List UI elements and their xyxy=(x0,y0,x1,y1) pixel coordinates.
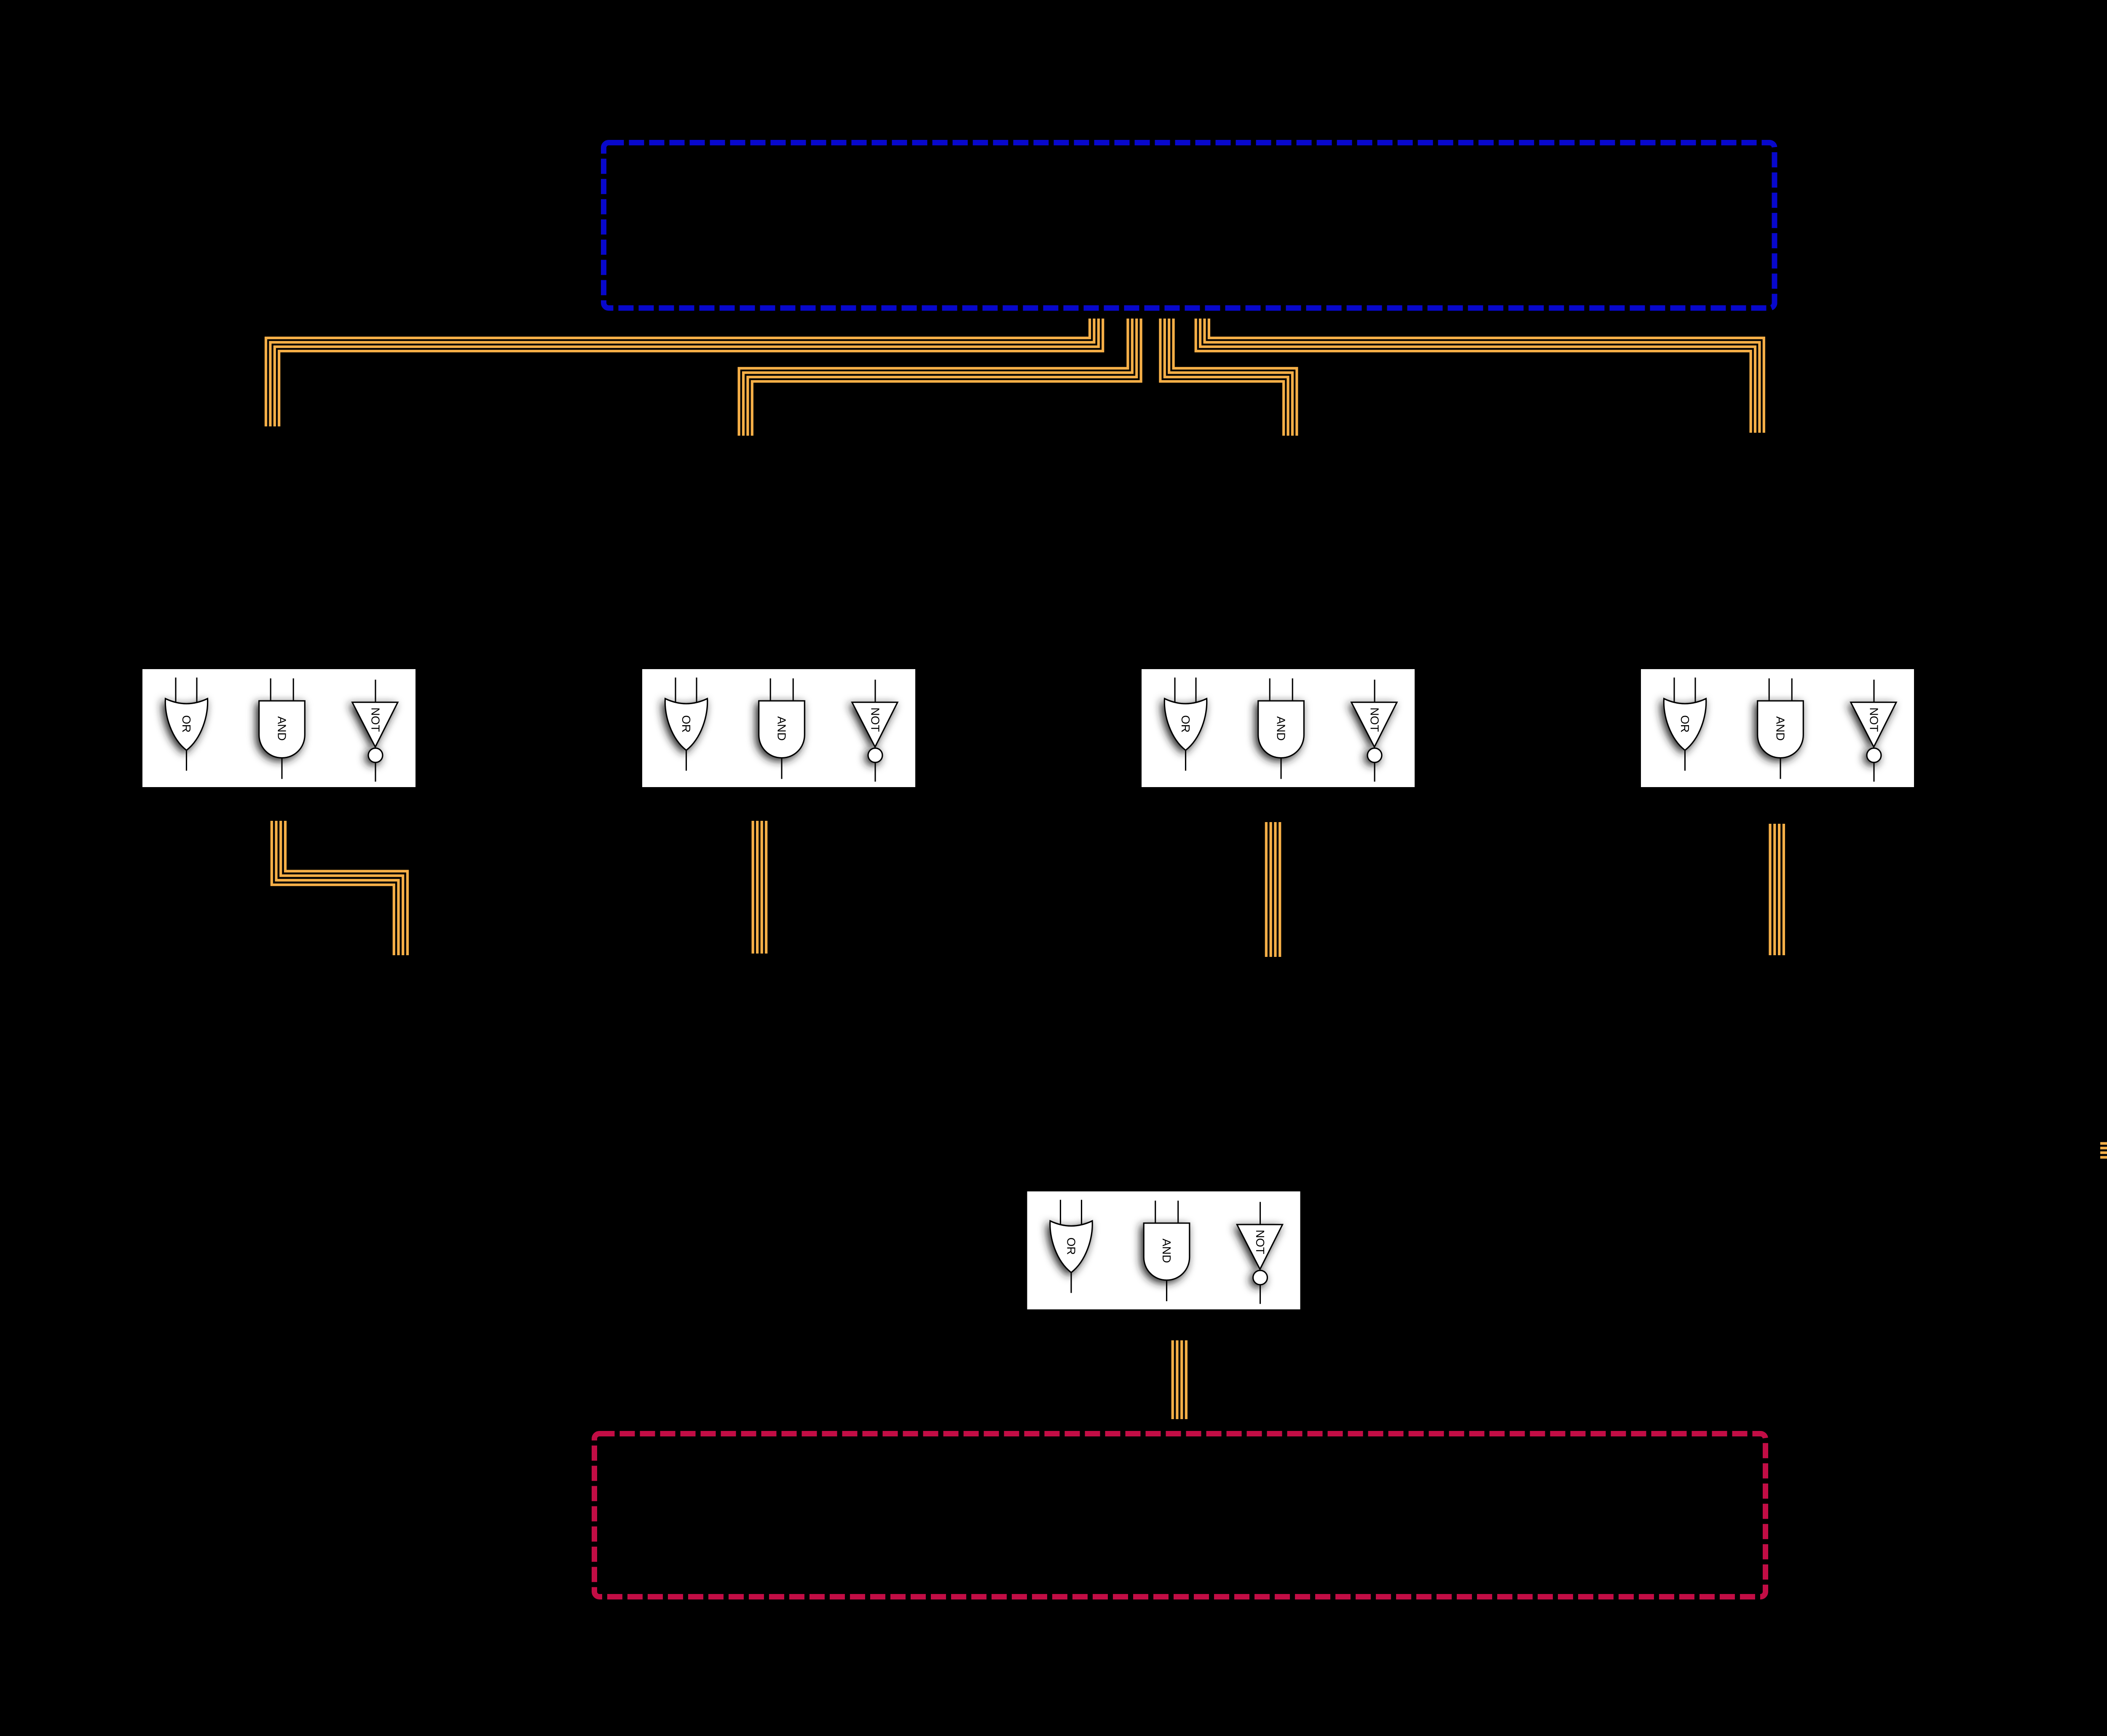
gate panel box 3 xyxy=(1142,669,1415,787)
gate panel box 5 xyxy=(1027,1192,1300,1310)
bus group B wire 2 xyxy=(743,319,1132,436)
bus below box 1 (staircase) wire 1 xyxy=(285,821,407,955)
bus to output block wire 4 xyxy=(2100,1156,2107,1159)
bus group B wire 4 xyxy=(752,319,1141,436)
bus below box 1 (staircase) wire 3 xyxy=(276,821,399,955)
bus group A wire 1 xyxy=(266,319,1090,426)
bus below box 1 (staircase) wire 2 xyxy=(281,821,403,955)
bus below box 4 wire 4 xyxy=(1783,824,1785,955)
result register block (red dashed box) xyxy=(595,1434,1766,1597)
bus group A wire 3 xyxy=(275,319,1099,426)
gate panel box 2 xyxy=(642,669,915,787)
bus below box 2 wire 4 xyxy=(765,821,767,954)
bus to output block wire 1 xyxy=(2100,1142,2107,1145)
bus below box 4 wire 1 xyxy=(1769,824,1771,955)
gate panel box 1 xyxy=(142,669,416,787)
bus to output block wire 3 xyxy=(2100,1152,2107,1154)
bus below box 3 wire 3 xyxy=(1274,822,1276,957)
bus below box 4 wire 3 xyxy=(1778,824,1780,955)
bus to output block wire 2 xyxy=(2100,1147,2107,1149)
bus group A wire 4 xyxy=(279,319,1103,426)
bus below box 2 wire 1 xyxy=(751,821,754,954)
bus below box 1 (staircase) wire 4 xyxy=(272,821,394,955)
bus below box 3 wire 1 xyxy=(1265,822,1268,957)
bus group C wire 3 xyxy=(1165,319,1288,436)
bus below box 2 wire 3 xyxy=(761,821,763,954)
bus group D wire 2 xyxy=(1205,319,1760,433)
bus group D wire 4 xyxy=(1196,319,1751,433)
bus group C wire 1 xyxy=(1174,319,1297,436)
bus below box 2 wire 2 xyxy=(756,821,759,954)
bus below box 5 wire 1 xyxy=(1171,1340,1174,1419)
bus group D wire 1 xyxy=(1209,319,1764,433)
gate panel box 4 xyxy=(1641,669,1914,787)
bus below box 3 wire 4 xyxy=(1279,822,1281,957)
bus group B wire 3 xyxy=(748,319,1137,436)
bus below box 5 wire 3 xyxy=(1180,1340,1183,1419)
bus below box 5 wire 2 xyxy=(1176,1340,1178,1419)
bus below box 4 wire 2 xyxy=(1773,824,1776,955)
bus group A wire 2 xyxy=(270,319,1094,426)
bus group C wire 4 xyxy=(1160,319,1284,436)
bus group C wire 2 xyxy=(1169,319,1292,436)
bus group B wire 1 xyxy=(739,319,1128,436)
bus below box 3 wire 2 xyxy=(1270,822,1272,957)
input register block (blue dashed box) xyxy=(604,143,1775,308)
bus group D wire 3 xyxy=(1200,319,1755,433)
bus below box 5 wire 4 xyxy=(1185,1340,1188,1419)
